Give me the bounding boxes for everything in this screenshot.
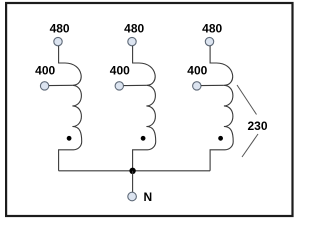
terminal 480 (T1) — [54, 37, 62, 45]
junction node — [129, 168, 135, 174]
transformer T2 — [110, 22, 156, 171]
svg-text:480: 480 — [50, 22, 70, 36]
terminal 480 (T3) — [205, 37, 213, 45]
border frame — [6, 3, 292, 216]
terminal 400 (T1) — [40, 82, 48, 90]
polarity dot (T2) — [141, 136, 146, 141]
wire from 480 terminal down (T2) — [133, 46, 139, 63]
tap wire 400 (T3) — [201, 84, 224, 86]
svg-text:400: 400 — [35, 64, 55, 78]
svg-text:480: 480 — [202, 22, 222, 36]
leader line upper (230) — [237, 85, 257, 115]
svg-text:480: 480 — [124, 22, 144, 36]
svg-text:230: 230 — [247, 119, 267, 133]
svg-text:400: 400 — [187, 64, 207, 78]
terminal 400 (T3) — [193, 82, 201, 90]
terminal 480 (T2) — [128, 37, 136, 45]
leader line lower (230) — [242, 134, 258, 157]
svg-text:400: 400 — [110, 64, 130, 78]
polarity dot (T1) — [67, 136, 72, 141]
polarity dot (T3) — [218, 136, 223, 141]
transformer T1 — [35, 22, 82, 171]
svg-text:N: N — [143, 190, 152, 204]
winding coil L1 — [59, 63, 82, 171]
transformer T3 — [187, 22, 233, 171]
tap wire 400 (T2) — [124, 84, 147, 86]
tap wire 400 (T1) — [49, 84, 73, 86]
winding coil L3 — [210, 63, 233, 171]
wire from 480 terminal down (T1) — [59, 46, 65, 63]
terminal 400 (T2) — [115, 82, 123, 90]
neutral bus wire — [59, 170, 211, 172]
wire junction to N terminal — [132, 171, 134, 192]
winding coil L2 — [133, 63, 156, 171]
wire from 480 terminal down (T3) — [210, 46, 216, 63]
terminal N — [128, 192, 137, 201]
